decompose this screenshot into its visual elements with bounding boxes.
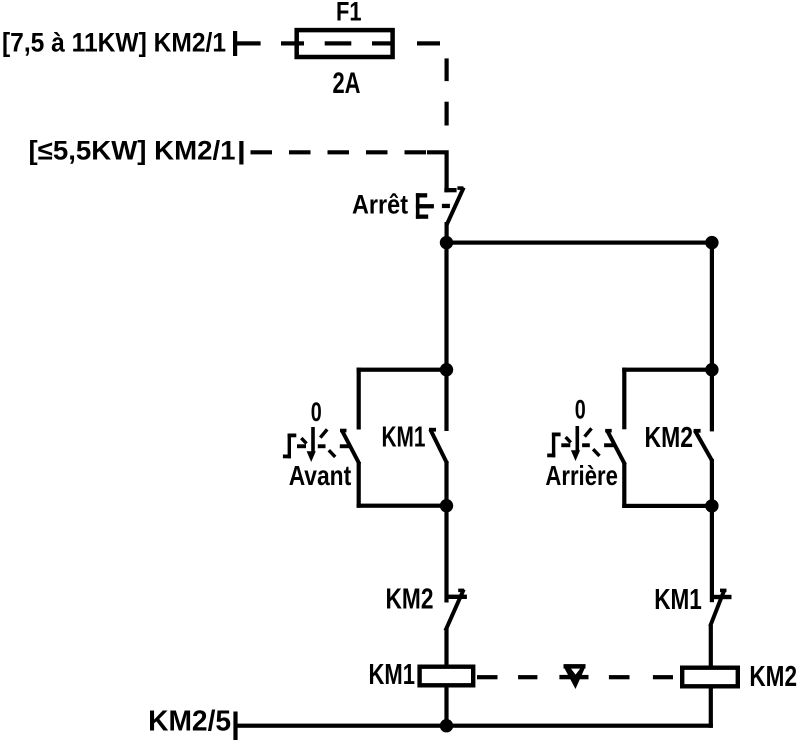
fuse F1: [297, 30, 393, 57]
svg-text:Arrière: Arrière: [545, 460, 618, 491]
wire stub row1: [235, 41, 261, 45]
dashed wire through fuse: [281, 41, 304, 45]
svg-text:0: 0: [575, 395, 586, 425]
NO contact Avant (pushbutton): [340, 429, 361, 508]
NO contact Arriere (pushbutton): [605, 429, 626, 508]
dashed vertical wire from fuse: [445, 58, 449, 81]
svg-text:F1: F1: [336, 0, 362, 27]
node G (bottom junction): [440, 719, 453, 732]
wire top horizontal: [447, 241, 712, 245]
NO contact KM1: [429, 428, 449, 506]
node F (right bottom junction): [705, 499, 718, 512]
coil KM1: [420, 667, 474, 686]
svg-text:Avant: Avant: [289, 460, 352, 491]
wire left main to NC KM2: [444, 506, 448, 603]
wire Arriere branch upper vertical: [622, 368, 626, 430]
svg-text:2A: 2A: [333, 67, 361, 100]
NC contact Arrêt: [444, 186, 463, 238]
NO contact KM2: [694, 429, 714, 506]
coil KM2: [682, 668, 738, 687]
svg-text:KM1: KM1: [369, 659, 416, 691]
terminal tick row1: [233, 31, 237, 56]
wire corner row2 to Arrêt: [427, 152, 447, 192]
terminal tick bottom: [233, 712, 237, 740]
mechanical interlock dashed link: [477, 675, 673, 679]
NC contact KM2: [444, 589, 467, 665]
wire KM2 contact upper vertical: [710, 370, 714, 432]
node B (top right junction): [705, 236, 718, 249]
svg-text:KM2: KM2: [386, 584, 434, 616]
pushbutton actuator Arriere: [547, 426, 614, 461]
interlock arrow: [564, 664, 586, 689]
node E (left bottom junction): [440, 499, 453, 512]
node A (top left junction): [440, 236, 453, 249]
svg-text:KM2: KM2: [645, 422, 694, 454]
svg-text:[≤5,5KW] KM2/1: [≤5,5KW] KM2/1: [29, 136, 236, 166]
svg-text:[7,5 à 11KW] KM2/1: [7,5 à 11KW] KM2/1: [2, 28, 226, 58]
wire right branch bottom: [622, 504, 712, 508]
wire right main to NC KM1: [710, 506, 714, 602]
wire left branch top: [357, 368, 447, 372]
node C (left T junction): [440, 363, 453, 376]
svg-text:Arrêt: Arrêt: [352, 190, 408, 220]
svg-text:KM2: KM2: [749, 661, 797, 693]
wire Avant branch upper vertical: [357, 368, 361, 430]
wire KM1 contact upper vertical: [444, 370, 448, 431]
wire below coil KM2: [709, 686, 713, 728]
wire right branch top: [622, 368, 712, 372]
pushbutton actuator Avant: [283, 427, 350, 462]
svg-text:KM1: KM1: [654, 584, 702, 616]
terminal tick row2: [239, 141, 243, 165]
wire left branch bottom: [357, 504, 447, 508]
svg-text:0: 0: [311, 397, 322, 427]
wire bottom horizontal: [235, 724, 713, 728]
wire left main down to T: [444, 243, 448, 372]
wire below coil KM1: [444, 688, 448, 726]
NC contact KM1: [709, 589, 732, 666]
dashed wire row2: [251, 150, 428, 154]
node D (right T junction): [705, 363, 718, 376]
svg-text:KM1: KM1: [382, 422, 426, 454]
wire right main down to T: [710, 243, 714, 372]
svg-text:KM2/5: KM2/5: [148, 706, 231, 738]
pushbutton actuator E for Arrêt: [416, 193, 450, 219]
